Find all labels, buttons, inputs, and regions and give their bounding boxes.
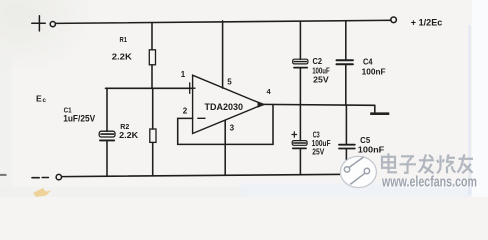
- svg-text:TDA2030: TDA2030: [205, 102, 244, 112]
- svg-text:25V: 25V: [313, 75, 329, 84]
- pin 2 minus mark: [198, 117, 205, 119]
- svg-text:3: 3: [230, 124, 235, 133]
- wire C5 to bottom rail: [345, 150, 347, 175]
- svg-text:+ 1/2Ec: + 1/2Ec: [411, 17, 443, 27]
- svg-text:100nF: 100nF: [358, 146, 385, 155]
- svg-text:2.2K: 2.2K: [119, 130, 139, 140]
- wire C1 column bottom: [106, 141, 108, 176]
- capacitor C4: [337, 59, 353, 61]
- 烧: [439, 155, 441, 168]
- wire input to pin 1: [106, 87, 193, 89]
- svg-text:100nF: 100nF: [362, 68, 386, 77]
- svg-text:25V: 25V: [312, 148, 325, 157]
- wire top rail: [56, 20, 392, 23]
- wire C2 to output line: [299, 69, 301, 105]
- resistor R2: [150, 129, 156, 142]
- wire R2 column top: [152, 88, 154, 129]
- pin 2 wire: [178, 117, 193, 119]
- wire pin 5 to top rail: [222, 21, 224, 88]
- capacitor C3: [292, 141, 307, 146]
- wire C5 column top: [345, 105, 347, 144]
- svg-text:1uF/25V: 1uF/25V: [63, 113, 95, 123]
- node - terminal bottom-left: [32, 177, 39, 179]
- node + 1/2Ec terminal top-right: [391, 17, 397, 23]
- wire output from pin 4: [263, 103, 375, 106]
- wire bottom rail: [62, 174, 348, 176]
- capacitor C1: [99, 131, 115, 137]
- watermark chinese text (approximated strokes): [382, 153, 473, 173]
- op-amp U1 TDA2030 triangle: [193, 75, 263, 133]
- wire pin 3 to bottom rail: [224, 120, 226, 175]
- pin 1 plus mark: [185, 87, 196, 89]
- svg-text:C5: C5: [360, 136, 371, 145]
- capacitor C3 plus mark: [293, 132, 295, 137]
- watermark logo circle: [340, 156, 376, 187]
- svg-text:100uF: 100uF: [312, 67, 330, 76]
- wire R1 column bottom: [151, 65, 153, 89]
- capacitor C2: [293, 59, 308, 64]
- left edge dash artifact: [0, 174, 7, 176]
- pin 4 arrow tip: [258, 101, 266, 108]
- wire C3 column top: [299, 105, 301, 141]
- 友: [459, 158, 474, 160]
- resistor R1: [149, 50, 155, 65]
- capacitor C5: [339, 144, 355, 146]
- wire C3 to bottom rail: [299, 149, 301, 174]
- svg-text:C4: C4: [363, 58, 373, 67]
- wire R1 column top: [151, 23, 153, 50]
- 电: [382, 157, 395, 168]
- svg-text:2.2K: 2.2K: [112, 52, 133, 62]
- svg-text:1: 1: [181, 70, 186, 79]
- svg-text:5: 5: [227, 77, 232, 86]
- wire C4 to output line: [345, 65, 347, 105]
- svg-text:E: E: [36, 93, 42, 103]
- wire C4 column top: [345, 21, 347, 60]
- wire C2 column top: [299, 21, 301, 59]
- 子: [401, 155, 414, 157]
- wire ground stub: [374, 105, 376, 112]
- node + terminal top-left: [32, 22, 45, 24]
- svg-text:R1: R1: [120, 37, 128, 44]
- svg-text:c: c: [43, 97, 47, 104]
- wire R2 column bottom: [152, 142, 154, 175]
- ground: [370, 112, 389, 115]
- svg-text:www.elecfans.com: www.elecfans.com: [381, 175, 477, 191]
- wire feedback loop: [178, 105, 273, 144]
- svg-text:2: 2: [183, 107, 188, 116]
- 发: [419, 159, 434, 161]
- svg-text:C2: C2: [313, 57, 323, 66]
- yellow arrow artifact bottom-left: [33, 188, 51, 197]
- wire C1 column top: [106, 88, 108, 131]
